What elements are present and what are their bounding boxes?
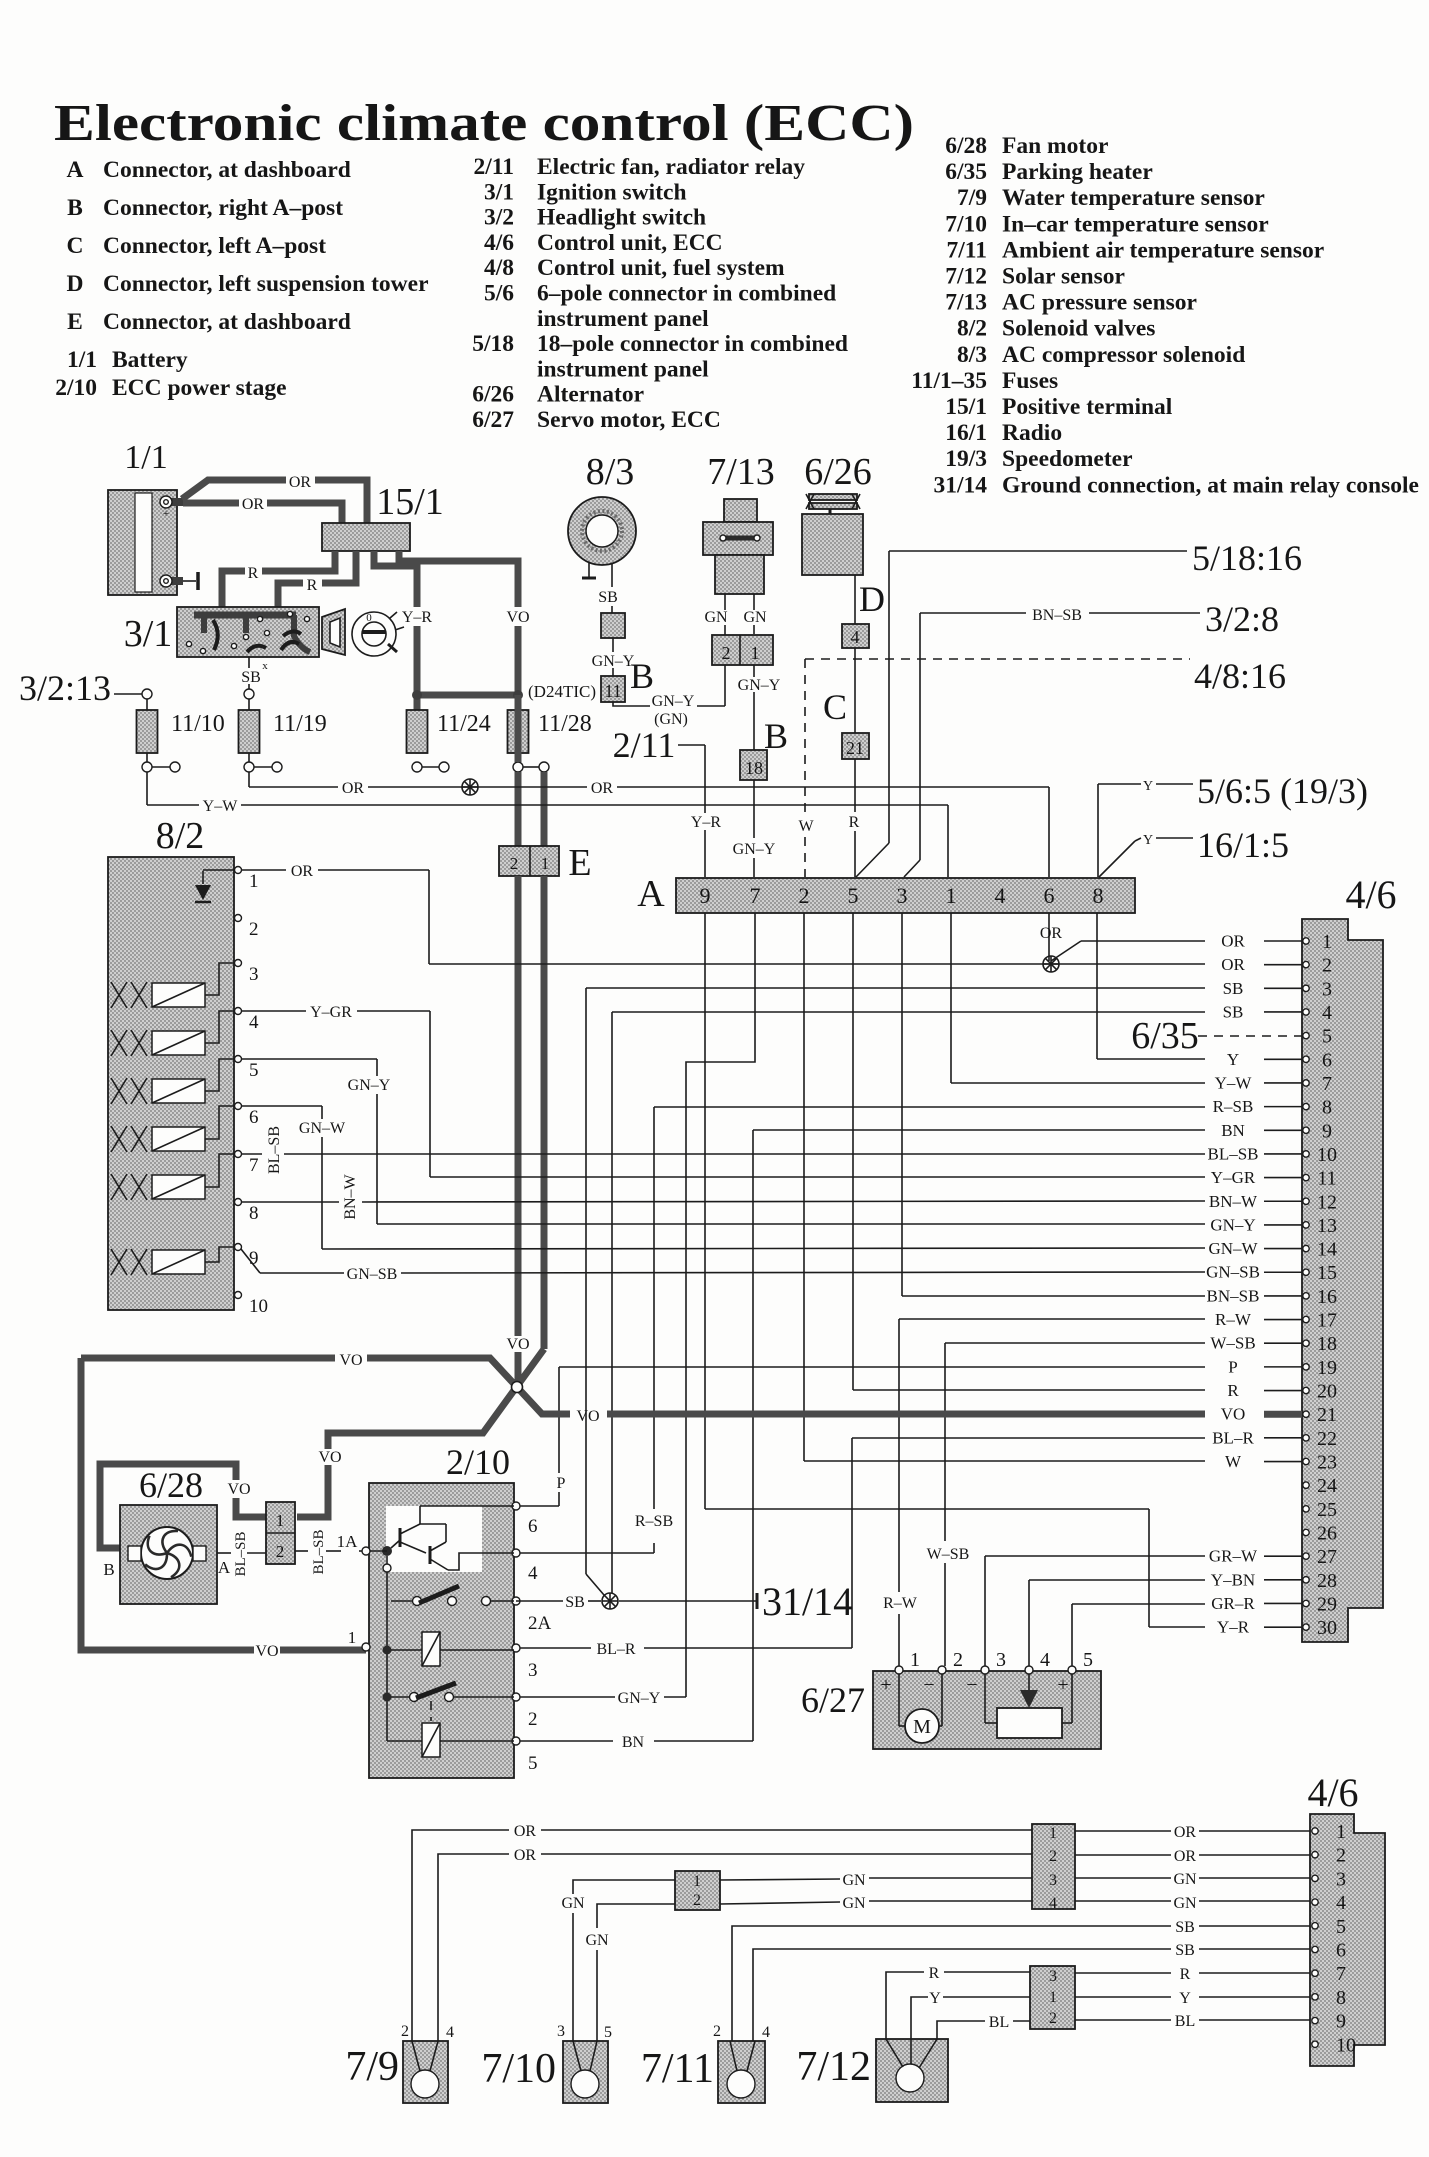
svg-text:8/3: 8/3 <box>957 342 987 368</box>
8/2 diode <box>203 869 234 871</box>
svg-text:8: 8 <box>1336 1987 1346 2009</box>
svg-text:7/10: 7/10 <box>945 211 987 237</box>
svg-text:6/27: 6/27 <box>801 1680 865 1720</box>
battery negative terminal <box>171 577 183 585</box>
water temperature sensor 7/9 <box>403 2041 448 2103</box>
wire SB to 4/6:4 <box>612 1011 1205 1013</box>
svg-text:D: D <box>67 271 84 297</box>
svg-text:5: 5 <box>528 1753 538 1774</box>
svg-text:1/1: 1/1 <box>124 439 167 476</box>
svg-text:12: 12 <box>1317 1191 1337 1213</box>
svg-text:2: 2 <box>713 2023 721 2040</box>
svg-text:Headlight switch: Headlight switch <box>537 205 706 231</box>
svg-text:Y–GR: Y–GR <box>310 1004 352 1021</box>
svg-text:W–SB: W–SB <box>927 1546 970 1563</box>
2/10 relay coil 5 <box>387 1740 422 1742</box>
svg-text:1: 1 <box>693 1873 701 1890</box>
svg-text:2/10: 2/10 <box>446 1442 510 1482</box>
svg-text:VO: VO <box>506 1336 529 1353</box>
svg-text:15/1: 15/1 <box>376 481 444 523</box>
splice SB <box>602 1593 618 1609</box>
svg-text:6: 6 <box>1044 883 1055 908</box>
connector 1-2-3-4 bottom <box>1032 1824 1075 1909</box>
svg-text:GN: GN <box>743 609 767 626</box>
svg-text:1: 1 <box>249 871 259 892</box>
svg-text:VO: VO <box>227 1481 250 1498</box>
svg-text:8: 8 <box>249 1203 259 1224</box>
svg-text:3/1: 3/1 <box>484 179 514 205</box>
svg-text:4/6: 4/6 <box>484 230 514 256</box>
svg-text:BN–SB: BN–SB <box>1032 607 1082 624</box>
svg-text:11: 11 <box>604 681 621 701</box>
svg-text:7: 7 <box>1336 1963 1346 1985</box>
wire SB 2/10:2A to 31/14 <box>516 1600 563 1602</box>
svg-text:18: 18 <box>745 758 763 778</box>
svg-text:OR: OR <box>514 1847 537 1864</box>
label Y-W <box>199 797 241 815</box>
wire Y-GR 8/2:4 to 4/6:11 <box>241 1010 306 1012</box>
wire Y-W fuse 11/10 to A:1 <box>146 772 148 805</box>
svg-text:3: 3 <box>557 2023 565 2040</box>
svg-text:18–pole connector in combined: 18–pole connector in combined <box>537 331 848 357</box>
svg-text:Y: Y <box>1143 833 1153 848</box>
wire OR 8/2:1 to 4/6:2 <box>241 869 286 871</box>
svg-text:1: 1 <box>946 883 957 908</box>
wire BL-R from 2/10:3 <box>516 1647 591 1649</box>
svg-text:5/6:5 (19/3): 5/6:5 (19/3) <box>1197 771 1368 811</box>
svg-text:Alternator: Alternator <box>537 382 644 408</box>
svg-text:GN–W: GN–W <box>299 1120 346 1137</box>
junction X crossing <box>512 1382 523 1393</box>
svg-text:Fan motor: Fan motor <box>1002 133 1108 159</box>
svg-text:VO: VO <box>576 1408 599 1425</box>
svg-text:7/12: 7/12 <box>796 2044 871 2090</box>
svg-text:A: A <box>67 157 84 183</box>
svg-text:4/8:16: 4/8:16 <box>1194 656 1286 696</box>
svg-text:VO: VO <box>339 1352 362 1369</box>
wire GN-Y B:11 to 7/13:2 <box>613 702 650 706</box>
svg-text:P: P <box>1228 1357 1237 1376</box>
svg-text:3: 3 <box>1049 1872 1057 1889</box>
svg-text:3: 3 <box>1336 1868 1346 1890</box>
connector C:21 <box>842 733 869 759</box>
svg-text:OR: OR <box>591 780 614 797</box>
svg-text:GN–Y: GN–Y <box>652 693 695 710</box>
svg-text:2: 2 <box>1322 955 1332 977</box>
svg-text:1: 1 <box>1049 1825 1057 1842</box>
svg-text:11/28: 11/28 <box>538 711 592 737</box>
wire R-W to 4/6:17 <box>899 1318 1205 1320</box>
svg-text:OR: OR <box>1040 925 1063 942</box>
svg-text:Speedometer: Speedometer <box>1002 446 1133 472</box>
svg-text:4/6: 4/6 <box>1307 1770 1358 1815</box>
svg-text:6/35: 6/35 <box>1131 1015 1199 1057</box>
svg-text:GR–R: GR–R <box>1211 1594 1255 1613</box>
svg-text:E: E <box>67 309 83 335</box>
svg-text:2: 2 <box>953 1649 963 1671</box>
svg-text:Connector, at dashboard: Connector, at dashboard <box>103 309 351 335</box>
svg-text:2: 2 <box>528 1709 538 1730</box>
fuse 11/10 <box>137 710 158 753</box>
wire Y A:8 to 16/1:5 <box>1099 841 1135 877</box>
svg-text:Control unit, ECC: Control unit, ECC <box>537 230 723 256</box>
in-car temperature sensor 7/10 <box>563 2041 608 2103</box>
svg-text:30: 30 <box>1317 1617 1337 1639</box>
svg-text:Y: Y <box>1227 1050 1239 1069</box>
svg-text:OR: OR <box>1174 1824 1197 1841</box>
svg-text:7/9: 7/9 <box>345 2044 399 2090</box>
svg-text:4: 4 <box>446 2024 454 2041</box>
svg-text:3: 3 <box>897 883 908 908</box>
AC compressor solenoid 8/3 <box>568 497 636 565</box>
svg-text:Water temperature sensor: Water temperature sensor <box>1002 185 1265 211</box>
svg-text:1: 1 <box>751 643 760 663</box>
splice OR to 4/6:1-2 <box>1043 956 1059 972</box>
terminal above fuse 11/19 <box>244 689 254 699</box>
svg-text:GN: GN <box>704 609 728 626</box>
svg-text:OR: OR <box>1174 1848 1197 1865</box>
wire VO 15/1 to fuse 11/28 <box>399 551 518 607</box>
svg-text:4: 4 <box>1322 1002 1332 1024</box>
svg-text:20: 20 <box>1317 1381 1337 1403</box>
svg-text:29: 29 <box>1317 1593 1337 1615</box>
svg-text:2: 2 <box>510 854 519 873</box>
svg-text:5: 5 <box>1083 1649 1093 1671</box>
svg-text:BL–SB: BL–SB <box>1207 1144 1258 1163</box>
svg-text:4: 4 <box>528 1563 538 1584</box>
wire SB from 8/3 <box>611 564 613 587</box>
terminal above fuse 11/10 <box>142 689 152 699</box>
wire VO E:1 down <box>541 876 548 1349</box>
wire R 15/1 to ignition right <box>322 551 356 583</box>
svg-text:R: R <box>307 577 318 594</box>
wire Y-W A:1 down <box>950 913 952 1083</box>
solenoid valves 8/2 box <box>108 857 234 1310</box>
fuse 11/19 lower terminals <box>244 762 254 772</box>
wire VO left loop <box>81 1358 254 1650</box>
wire BN-SB to 3/2:8 <box>920 612 1026 614</box>
connector B:18 <box>740 750 767 780</box>
svg-text:GN: GN <box>842 1895 866 1912</box>
svg-text:3/2: 3/2 <box>484 205 514 231</box>
svg-text:5: 5 <box>1322 1026 1332 1048</box>
fuse 11/10 lower terminals <box>142 762 152 772</box>
wire SB 7/11:2 to lower 4/6:5 <box>732 1926 1171 2041</box>
svg-text:GN–SB: GN–SB <box>1206 1263 1260 1282</box>
wire GN 7/13 pin1 <box>753 594 755 610</box>
wire VO to 4/6:21 <box>607 1411 1205 1418</box>
dashed wire 6/35 to 4/6:5 <box>1198 1035 1302 1037</box>
svg-text:B: B <box>630 656 654 696</box>
svg-text:Electric fan, radiator relay: Electric fan, radiator relay <box>537 154 805 180</box>
wire Y 7/12 to lower 4/6:8 <box>911 1997 928 2064</box>
svg-text:B: B <box>764 716 788 756</box>
svg-text:24: 24 <box>1317 1475 1337 1497</box>
wire VO through fuse 11/28 <box>515 695 522 762</box>
svg-text:Y–W: Y–W <box>1215 1073 1253 1092</box>
wire VO 6/28 branch <box>236 1480 266 1517</box>
wire SB ignition to fuse 11/19 <box>248 657 250 668</box>
svg-text:4: 4 <box>1040 1649 1050 1671</box>
svg-text:GN: GN <box>585 1932 609 1949</box>
svg-text:OR: OR <box>289 474 312 491</box>
svg-text:19/3: 19/3 <box>945 446 987 472</box>
svg-text:7/13: 7/13 <box>945 290 987 316</box>
svg-text:2: 2 <box>249 919 259 940</box>
svg-text:14: 14 <box>1317 1239 1337 1261</box>
svg-text:26: 26 <box>1317 1523 1337 1545</box>
svg-text:5/18:16: 5/18:16 <box>1192 538 1302 578</box>
7/13 internal contact <box>725 536 756 541</box>
svg-text:Ignition switch: Ignition switch <box>537 179 687 205</box>
svg-text:R–SB: R–SB <box>1213 1097 1254 1116</box>
svg-text:11/19: 11/19 <box>273 711 327 737</box>
4/6 wire labels <box>1221 931 1245 950</box>
svg-text:2: 2 <box>1049 2010 1057 2027</box>
svg-text:BN–W: BN–W <box>342 1173 359 1219</box>
svg-text:18: 18 <box>1317 1333 1337 1355</box>
wire W A:2 down <box>803 913 805 1461</box>
svg-text:Fuses: Fuses <box>1002 368 1058 394</box>
svg-text:6/26: 6/26 <box>472 382 514 408</box>
2/10 switch 2 <box>383 1693 392 1702</box>
2/10 terminals <box>512 1502 520 1510</box>
svg-text:4: 4 <box>995 883 1006 908</box>
svg-text:Ambient air temperature sensor: Ambient air temperature sensor <box>1002 237 1324 263</box>
svg-text:16: 16 <box>1317 1286 1337 1308</box>
svg-text:OR: OR <box>1221 955 1245 974</box>
legend left column <box>55 157 428 401</box>
svg-text:4: 4 <box>851 627 860 647</box>
svg-text:Y–R: Y–R <box>1217 1618 1250 1637</box>
svg-text:7/9: 7/9 <box>957 185 987 211</box>
wire Y A:8 to 5/6:5 <box>1097 784 1099 877</box>
solar sensor 7/12 <box>876 2039 948 2102</box>
wire BL 7/12 to lower 4/6:9 <box>937 2021 985 2039</box>
svg-text:6–pole connector in combined: 6–pole connector in combined <box>537 281 836 307</box>
wire BN from 2/10:5 <box>516 1740 613 1742</box>
svg-text:R: R <box>1180 1966 1191 1983</box>
wire BN-SB A:3 down <box>901 913 903 1296</box>
wire VO E:1 diagonal to fan <box>328 1349 544 1449</box>
svg-text:10: 10 <box>1336 2034 1356 2056</box>
svg-text:6/28: 6/28 <box>139 1465 203 1505</box>
battery positive terminal <box>171 498 183 506</box>
svg-text:3: 3 <box>528 1660 538 1681</box>
ignition key symbol <box>352 612 396 656</box>
fuse 11/28 lower terminals <box>513 762 523 772</box>
svg-text:1: 1 <box>1322 931 1332 953</box>
wire R-SB lower <box>653 1543 655 1553</box>
svg-text:5/6: 5/6 <box>484 281 514 307</box>
svg-text:BL–R: BL–R <box>1212 1428 1254 1447</box>
svg-text:M: M <box>913 1716 931 1738</box>
svg-text:1: 1 <box>1049 1989 1057 2006</box>
label GN 710b <box>581 1931 613 1949</box>
svg-text:15: 15 <box>1317 1262 1337 1284</box>
wire VO E:2 down <box>515 876 522 1336</box>
svg-text:Solenoid valves: Solenoid valves <box>1002 316 1155 342</box>
wire SB diagonal into splice <box>586 1574 604 1595</box>
svg-text:11/1–35: 11/1–35 <box>911 368 987 394</box>
svg-text:31/14: 31/14 <box>933 472 987 498</box>
svg-text:6/26: 6/26 <box>804 451 872 493</box>
svg-text:Connector, left suspension tow: Connector, left suspension tower <box>103 271 429 297</box>
svg-text:GN–Y: GN–Y <box>733 841 776 858</box>
svg-text:OR: OR <box>242 496 265 513</box>
svg-text:GN: GN <box>1173 1871 1197 1888</box>
svg-text:8: 8 <box>1322 1097 1332 1119</box>
svg-text:Ground connection, at main rel: Ground connection, at main relay console <box>1002 472 1419 498</box>
svg-text:R–W: R–W <box>1215 1310 1252 1329</box>
svg-text:W: W <box>798 818 814 835</box>
svg-text:R: R <box>1227 1381 1239 1400</box>
svg-text:10: 10 <box>1317 1144 1337 1166</box>
svg-text:2/10: 2/10 <box>55 375 97 401</box>
wire W-SB to 4/6:18 <box>945 1342 1205 1344</box>
wire GN-SB 8/2:9 to 4/6:15 <box>241 1249 260 1273</box>
svg-text:3/2:8: 3/2:8 <box>1205 599 1279 639</box>
connector D:4 <box>842 624 869 648</box>
svg-text:W: W <box>1225 1452 1242 1471</box>
connector box under 8/3 <box>601 613 625 638</box>
svg-text:4/8: 4/8 <box>484 255 514 281</box>
svg-text:Y–R: Y–R <box>402 609 433 626</box>
svg-text:11: 11 <box>1317 1168 1336 1190</box>
svg-text:GN: GN <box>1173 1895 1197 1912</box>
svg-text:3/1: 3/1 <box>124 613 173 655</box>
svg-text:6/28: 6/28 <box>945 133 987 159</box>
svg-text:AC compressor solenoid: AC compressor solenoid <box>1002 342 1245 368</box>
svg-text:3: 3 <box>249 964 259 985</box>
svg-text:B: B <box>103 1560 114 1579</box>
svg-text:GN–Y: GN–Y <box>348 1077 391 1094</box>
wire OR A:6 down <box>1048 913 1050 961</box>
svg-text:2: 2 <box>1336 1845 1346 1867</box>
ignition switch 3/1 <box>177 607 319 657</box>
svg-text:BN–SB: BN–SB <box>1207 1286 1260 1305</box>
svg-text:22: 22 <box>1317 1428 1337 1450</box>
svg-text:7/11: 7/11 <box>947 237 987 263</box>
svg-text:BN: BN <box>622 1734 645 1751</box>
svg-text:1: 1 <box>910 1649 920 1671</box>
wire R A:5 down <box>852 913 854 1390</box>
wire Y-R 15/1 to fuse 11/24 <box>374 551 417 607</box>
servo motor 6/27 box <box>873 1671 1101 1749</box>
svg-text:6/27: 6/27 <box>472 407 514 433</box>
label BN-W rotated <box>341 1180 360 1228</box>
svg-text:5: 5 <box>848 883 859 908</box>
label Y-R <box>399 608 435 626</box>
svg-text:0: 0 <box>366 612 372 624</box>
label OR rail 1 <box>338 779 368 797</box>
wire BN to 4/6:9 <box>753 1129 1205 1131</box>
svg-text:2: 2 <box>722 643 731 663</box>
alternator 6/26 symbol <box>809 494 857 500</box>
wire GN 7/10:3 to lower 4/6:3 <box>572 1913 574 2041</box>
wire VO second branch <box>541 772 548 846</box>
svg-text:6: 6 <box>1322 1049 1332 1071</box>
svg-text:E: E <box>568 842 591 884</box>
svg-text:OR: OR <box>514 1823 537 1840</box>
svg-text:6/35: 6/35 <box>945 159 987 185</box>
fuse 11/19 <box>239 710 260 753</box>
svg-text:6: 6 <box>249 1107 259 1128</box>
svg-text:7/10: 7/10 <box>481 2046 556 2092</box>
svg-text:D: D <box>859 579 885 619</box>
svg-text:VO: VO <box>318 1449 341 1466</box>
wire Y-R A:9 to 4/6:30 <box>705 1508 1149 1510</box>
svg-text:8/3: 8/3 <box>586 451 635 493</box>
wire R C:21 to A:5 <box>854 759 856 812</box>
label R-SB on vertical <box>629 1512 679 1530</box>
fan motor 6/28 <box>120 1505 217 1604</box>
svg-text:P: P <box>557 1475 566 1492</box>
svg-text:7/13: 7/13 <box>707 451 775 493</box>
svg-text:10: 10 <box>249 1296 268 1317</box>
6/27 wiper arrow <box>1028 1674 1030 1690</box>
wire BL-SB connector to 2/10 <box>295 1550 308 1552</box>
wire GN-Y 2/10:2 <box>516 1696 615 1698</box>
wire OR 7/9:4 to lower 4/6:2 <box>438 1854 509 2041</box>
wire BL-SB fan to connector <box>217 1552 231 1554</box>
svg-text:16/1: 16/1 <box>945 420 987 446</box>
wire SB vertical into splice <box>611 1592 613 1593</box>
svg-text:VO: VO <box>506 609 529 626</box>
wire Y-R junction to fuse 11/24 <box>414 695 421 710</box>
wire Y-R 2/11 to A:9 <box>678 744 705 746</box>
wire BL-R to 4/6:22 <box>852 1437 1205 1439</box>
svg-text:2: 2 <box>1049 1848 1057 1865</box>
ambient air temperature sensor 7/11 <box>718 2041 765 2103</box>
svg-text:VO: VO <box>1221 1405 1246 1424</box>
svg-text:VO: VO <box>255 1643 278 1660</box>
svg-text:−: − <box>923 1674 934 1696</box>
svg-text:1A: 1A <box>337 1532 359 1551</box>
svg-text:GN–Y: GN–Y <box>738 677 781 694</box>
lower 4/6 pins 1-10 <box>1312 1828 1318 1834</box>
svg-text:3: 3 <box>1322 978 1332 1000</box>
2/10 relay coil 3 <box>383 1646 392 1655</box>
wire Y A:8 down <box>1096 913 1098 1059</box>
svg-text:BL–R: BL–R <box>596 1641 635 1658</box>
svg-text:SB: SB <box>1175 1919 1195 1936</box>
wire VO main horizontal <box>81 1355 335 1362</box>
svg-text:BN–W: BN–W <box>1209 1192 1258 1211</box>
svg-text:BL–SB: BL–SB <box>311 1529 327 1574</box>
junction Y-R/VO <box>417 692 518 699</box>
svg-text:2A: 2A <box>528 1613 552 1634</box>
svg-text:BL–SB: BL–SB <box>233 1531 249 1576</box>
wire BN-W 8/2:8 to 4/6:12 <box>241 1201 339 1203</box>
svg-text:R–W: R–W <box>883 1595 918 1612</box>
svg-text:Y: Y <box>1179 1990 1191 2007</box>
svg-text:21: 21 <box>846 738 864 758</box>
wire R-SB to 4/6:8 <box>654 1106 1205 1108</box>
control unit 4/6 connector <box>1302 919 1383 1642</box>
svg-text:Y–W: Y–W <box>203 798 239 815</box>
svg-text:Y: Y <box>929 1990 941 2007</box>
wire OR battery to 15/1 lower <box>183 500 239 507</box>
wire GR-R to 4/6:29 <box>1072 1603 1205 1605</box>
svg-text:8/2: 8/2 <box>957 316 987 342</box>
ECC power stage 2/10 box <box>369 1483 514 1778</box>
wire SB 7/11:4 to lower 4/6:6 <box>753 1949 1171 2041</box>
svg-text:Radio: Radio <box>1002 420 1062 446</box>
svg-text:3: 3 <box>1049 1968 1057 1985</box>
splice on OR rail <box>462 779 478 795</box>
svg-text:2: 2 <box>693 1892 701 1909</box>
